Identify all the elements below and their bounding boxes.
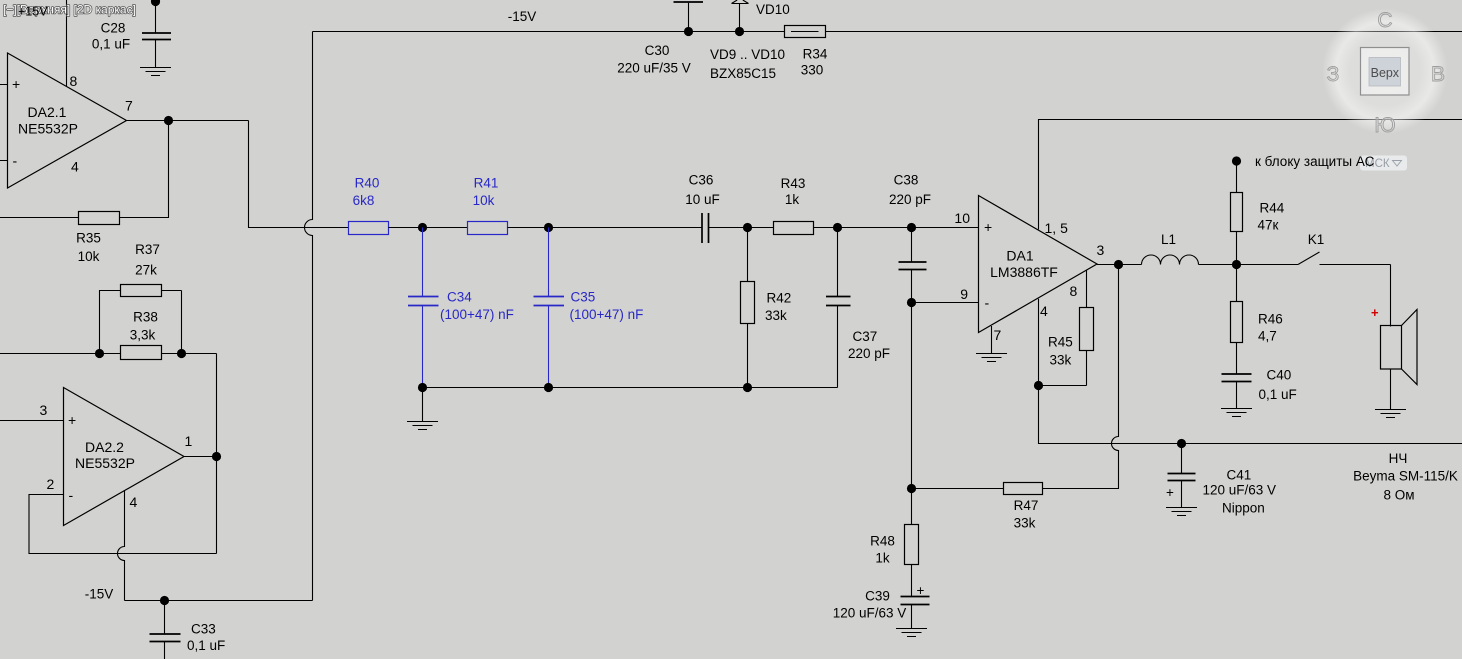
wire -15V top rail left segment xyxy=(313,31,785,33)
capacitor C33 xyxy=(150,601,226,659)
capacitor C28 xyxy=(92,0,171,67)
ground symbol below C34 xyxy=(407,388,438,430)
svg-text:BZX85C15: BZX85C15 xyxy=(710,66,776,81)
svg-text:8: 8 xyxy=(1070,283,1078,299)
node C33 junction xyxy=(160,596,169,605)
svg-text:Beyma SM-115/K: Beyma SM-115/K xyxy=(1353,469,1458,484)
svg-text:33k: 33k xyxy=(765,308,787,323)
svg-text:VD9 .. VD10: VD9 .. VD10 xyxy=(710,47,785,62)
svg-text:2: 2 xyxy=(47,476,55,492)
wire DA2.1 input stubs xyxy=(0,85,8,161)
navigation cube top button xyxy=(1361,48,1410,96)
wire +15V to pin 8 of DA2.1 xyxy=(66,0,68,86)
wire DA1 pin4 down xyxy=(1038,299,1040,386)
svg-text:Верх: Верх xyxy=(1371,66,1400,80)
wire DA2.2 pin4 with hop over feedback wire xyxy=(118,491,125,601)
wire ground bus y387.5 xyxy=(423,387,838,389)
svg-text:3,3k: 3,3k xyxy=(130,328,156,343)
svg-text:+15V: +15V xyxy=(18,5,48,19)
svg-text:-: - xyxy=(985,295,990,311)
ground symbol below C39 xyxy=(896,629,927,637)
resistor R35 xyxy=(76,212,119,265)
inductor L1 xyxy=(1142,232,1199,265)
ground symbol below C41 xyxy=(1166,508,1197,516)
svg-text:R41: R41 xyxy=(474,176,499,191)
wire feedback net y353 xyxy=(0,354,217,457)
svg-text:C28: C28 xyxy=(101,21,126,36)
svg-text:+: + xyxy=(1371,305,1379,320)
svg-text:120 uF/63 V: 120 uF/63 V xyxy=(833,606,907,621)
svg-text:330: 330 xyxy=(801,63,824,78)
node pin4/R45 junction xyxy=(1034,381,1043,390)
svg-text:6k8: 6k8 xyxy=(353,193,375,208)
zener diode VD10 xyxy=(710,0,790,81)
ground symbol DA1 pin7 xyxy=(976,354,1007,362)
node C37 top junction xyxy=(833,223,842,232)
svg-text:R40: R40 xyxy=(355,176,380,191)
svg-text:0,1 uF: 0,1 uF xyxy=(1259,387,1297,402)
svg-text:8 Ом: 8 Ом xyxy=(1383,488,1414,503)
svg-text:DA1: DA1 xyxy=(1006,248,1033,264)
svg-text:1k: 1k xyxy=(785,192,800,207)
svg-text:220 pF: 220 pF xyxy=(889,192,931,207)
op-amp DA1 LM3886TF xyxy=(954,196,1104,344)
capacitor C37 xyxy=(826,228,890,388)
wire DA1 output pin3 xyxy=(1097,264,1142,266)
resistor R47 xyxy=(912,483,1043,531)
svg-text:+: + xyxy=(984,219,992,235)
node pin9 junction xyxy=(907,298,916,307)
svg-text:3: 3 xyxy=(1097,242,1105,258)
ground symbol below C40 xyxy=(1221,409,1252,417)
svg-text:R44: R44 xyxy=(1260,201,1285,216)
svg-text:-: - xyxy=(13,153,18,169)
svg-text:R47: R47 xyxy=(1014,498,1039,513)
svg-text:DA2.2: DA2.2 xyxy=(85,439,124,455)
svg-text:9: 9 xyxy=(960,286,968,302)
svg-text:LM3886TF: LM3886TF xyxy=(990,264,1058,280)
svg-text:DA2.1: DA2.1 xyxy=(28,104,67,120)
svg-text:7: 7 xyxy=(994,327,1002,343)
svg-text:+: + xyxy=(68,412,76,428)
svg-text:З: З xyxy=(1327,63,1340,86)
svg-text:K1: K1 xyxy=(1308,232,1325,247)
wire DA1 pin7 to ground xyxy=(991,326,993,354)
wire R41 to C36 xyxy=(508,227,703,229)
resistor R38 xyxy=(121,310,162,360)
node DA2.1 output junction xyxy=(164,116,173,125)
node DA1 output junction xyxy=(1114,260,1123,269)
svg-text:C41: C41 xyxy=(1227,468,1252,483)
svg-text:4: 4 xyxy=(130,494,138,510)
wire R43 to DA1 xyxy=(814,227,980,229)
wire DA2.1 output xyxy=(127,120,249,122)
svg-text:NE5532P: NE5532P xyxy=(18,121,78,137)
capacitor C34 xyxy=(408,228,514,388)
capacitor C36 xyxy=(685,173,720,244)
svg-text:-15V: -15V xyxy=(508,9,537,24)
svg-text:+: + xyxy=(12,76,20,92)
speaker НЧ xyxy=(1353,305,1458,503)
wire C36 to R43 xyxy=(709,227,774,229)
node R42 bottom junction xyxy=(743,383,752,392)
wire R35 to left edge xyxy=(0,217,78,219)
svg-text:Nippon: Nippon xyxy=(1222,501,1265,516)
svg-text:C40: C40 xyxy=(1267,368,1292,383)
svg-text:(100+47) nF: (100+47) nF xyxy=(570,307,644,322)
node DA2.2 output junction xyxy=(212,452,221,461)
node C35 top junction xyxy=(544,223,553,232)
resistor R43 xyxy=(774,176,814,235)
resistor R44 xyxy=(1231,161,1285,265)
svg-text:C38: C38 xyxy=(894,173,919,188)
capacitor C40 xyxy=(1222,368,1297,409)
svg-text:27k: 27k xyxy=(135,263,157,278)
wire DA1 pins 1,5 to top supply rail xyxy=(1039,120,1462,230)
svg-text:1k: 1k xyxy=(875,551,890,566)
svg-text:НЧ: НЧ xyxy=(1389,451,1408,466)
svg-text:10k: 10k xyxy=(473,193,495,208)
wire -15V bottom to DA2.2 pin4 xyxy=(125,600,313,602)
svg-text:-15V: -15V xyxy=(85,587,114,602)
svg-text:к блоку защиты АС: к блоку защиты АС xyxy=(1255,154,1375,169)
node C34 bottom junction xyxy=(418,383,427,392)
svg-text:R45: R45 xyxy=(1048,335,1073,350)
svg-text:R43: R43 xyxy=(781,176,806,191)
node C41 junction xyxy=(1177,439,1186,448)
svg-text:3: 3 xyxy=(40,402,48,418)
svg-text:1: 1 xyxy=(185,433,193,449)
svg-text:VD10: VD10 xyxy=(756,2,790,17)
node junction R37/R38 right xyxy=(177,349,186,358)
svg-text:10k: 10k xyxy=(78,249,100,264)
svg-text:10: 10 xyxy=(954,210,970,226)
svg-text:1, 5: 1, 5 xyxy=(1045,220,1069,236)
svg-text:R48: R48 xyxy=(870,534,895,549)
svg-text:L1: L1 xyxy=(1161,232,1176,247)
node terminal to protection block xyxy=(1232,156,1241,165)
switch K1 xyxy=(1298,232,1391,265)
wire DA2.2 pin3 input xyxy=(0,420,64,422)
coordinate system badge МСК xyxy=(1360,156,1407,171)
svg-text:33k: 33k xyxy=(1050,353,1072,368)
resistor R37 xyxy=(100,242,182,354)
capacitor C38 xyxy=(889,173,931,303)
node L1/R44/K1 junction xyxy=(1232,260,1241,269)
wire C38 node down to feedback node xyxy=(911,303,913,489)
node R47/R48 junction xyxy=(907,484,916,493)
wire R40 to R41 xyxy=(389,227,468,229)
capacitor C30 xyxy=(617,2,703,76)
svg-text:R46: R46 xyxy=(1258,312,1283,327)
op-amp DA2.1 xyxy=(8,53,134,188)
svg-text:C37: C37 xyxy=(853,329,878,344)
svg-text:Ю: Ю xyxy=(1374,114,1395,137)
svg-text:0,1 uF: 0,1 uF xyxy=(187,638,225,653)
resistor R41 xyxy=(468,176,508,235)
op-amp DA2.2 xyxy=(40,388,193,526)
capacitor C35 xyxy=(534,228,644,388)
svg-text:R37: R37 xyxy=(135,242,160,257)
wire feedback from output down with hop xyxy=(1043,265,1119,489)
svg-text:10 uF: 10 uF xyxy=(685,192,720,207)
svg-text:47к: 47к xyxy=(1258,218,1279,233)
resistor R40 xyxy=(349,176,389,235)
ground symbol below speaker xyxy=(1375,410,1406,418)
svg-text:R35: R35 xyxy=(76,231,101,246)
wire pin9 to DA1 xyxy=(912,302,980,304)
wire DA2.2 pin2 feedback loop xyxy=(29,495,217,554)
wire DA2.2 output xyxy=(184,457,217,554)
node junction R37/R38 left xyxy=(95,349,104,358)
svg-text:C35: C35 xyxy=(571,290,596,305)
svg-text:120 uF/63 V: 120 uF/63 V xyxy=(1203,483,1277,498)
svg-text:R34: R34 xyxy=(803,47,828,62)
svg-text:8: 8 xyxy=(70,73,78,89)
svg-text:220 pF: 220 pF xyxy=(848,346,890,361)
resistor R34 xyxy=(785,26,828,78)
node C38 top junction xyxy=(907,223,916,232)
svg-text:R38: R38 xyxy=(133,310,158,325)
wire output down to signal row xyxy=(249,121,349,228)
svg-text:7: 7 xyxy=(125,98,133,114)
node C34 top junction xyxy=(418,223,427,232)
svg-text:В: В xyxy=(1431,63,1445,86)
svg-text:R42: R42 xyxy=(767,291,792,306)
svg-text:+: + xyxy=(1166,485,1174,500)
svg-text:(100+47) nF: (100+47) nF xyxy=(440,307,514,322)
svg-text:+: + xyxy=(917,583,925,598)
capacitor C41 polarized xyxy=(1166,444,1276,516)
svg-text:NE5532P: NE5532P xyxy=(75,455,135,471)
svg-text:C36: C36 xyxy=(689,173,714,188)
capacitor C39 polarized xyxy=(833,583,930,629)
svg-text:C34: C34 xyxy=(447,290,472,305)
svg-text:220 uF/35 V: 220 uF/35 V xyxy=(617,61,691,76)
resistor R48 xyxy=(870,489,918,597)
svg-text:C30: C30 xyxy=(645,43,670,58)
svg-text:4: 4 xyxy=(1040,303,1048,319)
svg-text:-: - xyxy=(69,487,74,503)
svg-text:C39: C39 xyxy=(865,589,890,604)
node R42 top junction xyxy=(743,223,752,232)
node C35 bottom junction xyxy=(544,383,553,392)
wire -15V top rail right segment xyxy=(826,31,1462,33)
svg-text:33k: 33k xyxy=(1014,516,1036,531)
svg-text:4: 4 xyxy=(71,159,79,175)
svg-text:С: С xyxy=(1377,9,1392,32)
svg-text:4,7: 4,7 xyxy=(1258,329,1277,344)
svg-text:0,1 uF: 0,1 uF xyxy=(92,37,130,52)
resistor R46 xyxy=(1231,265,1283,375)
svg-text:C33: C33 xyxy=(191,622,216,637)
wire -15V vertical rail with hop over signal wire xyxy=(305,32,313,601)
wire L1 to K1 node xyxy=(1199,264,1299,266)
ground under C28 xyxy=(140,68,171,76)
wire pin4 node down to output ground bus xyxy=(1039,386,1462,444)
wire feedback to R35 xyxy=(120,121,169,218)
resistor R45 xyxy=(1039,270,1094,385)
resistor R42 xyxy=(741,228,792,388)
wire K1 to speaker xyxy=(1390,265,1392,327)
